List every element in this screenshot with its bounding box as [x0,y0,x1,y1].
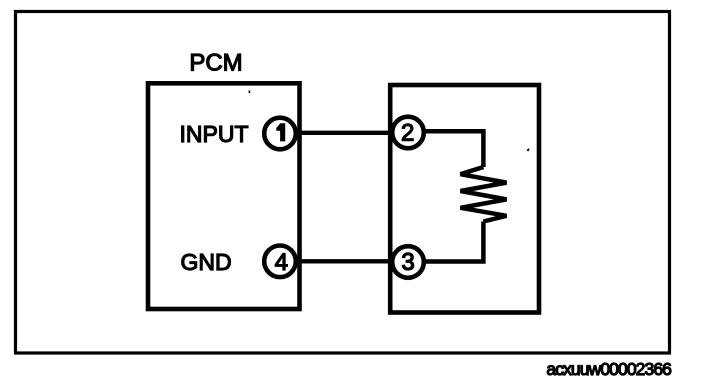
pin 2 [392,117,424,149]
scan speck [527,148,530,151]
pin 3 [392,246,424,278]
wire pin4 to pin3 [296,259,392,263]
connector box [390,85,539,313]
PCM module box [148,83,300,309]
wire pin1 to pin2 [296,131,392,135]
scan speck [249,91,251,94]
pin 1 [264,118,296,150]
svg-text:GND: GND [181,249,232,275]
svg-text:PCM: PCM [189,50,242,77]
svg-text:INPUT: INPUT [180,121,249,147]
svg-text:acxuuw00002366: acxuuw00002366 [546,359,671,379]
pin 4 [264,245,296,277]
wire pin2 to resistor top [424,131,483,167]
resistor R [461,167,507,222]
wire resistor bottom to pin3 [424,222,483,262]
